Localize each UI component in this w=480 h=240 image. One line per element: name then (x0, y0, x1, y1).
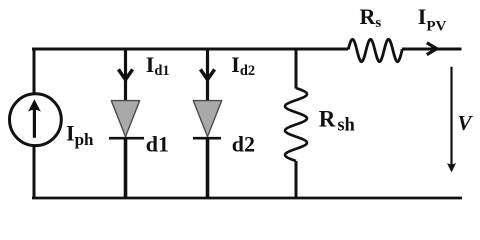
wire diode1 branch bottom (124, 138, 128, 198)
wire diode2 branch bottom (206, 138, 210, 198)
svg-text:Id1: Id1 (146, 52, 170, 79)
current source Iph (10, 94, 62, 146)
svg-text:Rs: Rs (360, 4, 382, 31)
svg-text:IPV: IPV (418, 4, 447, 35)
wire Rsh branch top (295, 48, 298, 89)
voltage arrowhead (447, 163, 456, 172)
svg-text:Id2: Id2 (231, 52, 255, 79)
svg-text:Rsh: Rsh (319, 107, 356, 136)
wire left rail upper (33, 48, 36, 94)
svg-text:d2: d2 (232, 131, 255, 156)
wire Rs to output terminal (402, 48, 462, 51)
resistor Rs (348, 39, 402, 61)
voltage arrow V (450, 67, 452, 165)
diode d1 triangle (111, 101, 139, 137)
wire diode1 branch top (124, 48, 127, 102)
arrowhead Id2 current direction (200, 69, 214, 79)
current source arrow shaft (33, 104, 36, 138)
wire left rail lower (33, 146, 36, 199)
wire Rsh branch bottom (295, 161, 298, 198)
wire diode2 branch top (206, 48, 209, 102)
svg-text:Iph: Iph (66, 120, 94, 149)
arrowhead IPV current direction (427, 43, 437, 55)
wire bottom rail (32, 197, 462, 200)
diode d2 cathode bar (193, 137, 221, 140)
diode d1 cathode bar (109, 137, 144, 140)
wire top rail (34, 48, 349, 49)
current source arrowhead (28, 99, 41, 112)
resistor Rsh (285, 88, 307, 161)
svg-text:d1: d1 (146, 131, 169, 156)
diode d2 triangle (193, 101, 221, 137)
svg-text:V: V (458, 111, 474, 135)
arrowhead Id1 current direction (118, 69, 132, 79)
